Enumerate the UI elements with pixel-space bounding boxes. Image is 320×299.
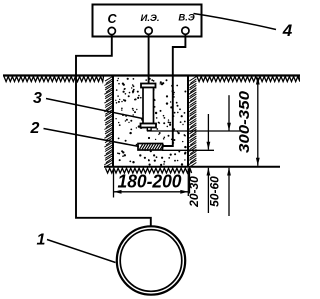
dimension 300-350 line [257, 78, 259, 166]
leader line to label 4 [194, 14, 277, 30]
leader line to label 1 [47, 240, 116, 263]
plate 2 hatch fill [140, 144, 164, 149]
pit left wall hatching [104, 77, 112, 168]
svg-text:4: 4 [282, 21, 293, 40]
dimension 300-350 top arrow [256, 77, 260, 85]
svg-text:3: 3 [33, 90, 42, 107]
svg-text:300-350: 300-350 [236, 90, 253, 153]
electrode 3 top cap [141, 84, 156, 88]
leader line to label 3 [46, 99, 143, 119]
dimension 180-200 line [114, 191, 189, 193]
svg-text:1: 1 [37, 232, 46, 249]
pipe 1 outer circle [117, 226, 185, 294]
dimension 20-30 lower arrow line [207, 168, 209, 213]
electrode 3 body [143, 88, 154, 124]
svg-text:В.Э: В.Э [178, 13, 195, 24]
dimension 50-60 lower arrow line [228, 168, 230, 216]
svg-text:20-30: 20-30 [187, 176, 201, 208]
terminal C [108, 27, 115, 34]
ground surface hatching [4, 77, 300, 82]
electrode 3 bottom flange [141, 124, 157, 128]
svg-text:180-200: 180-200 [118, 172, 182, 192]
dimension 20-30 upper arrow line [207, 114, 209, 150]
level line at electrode bottom [147, 130, 242, 132]
svg-text:С: С [107, 12, 117, 26]
pit left wall [112, 76, 114, 167]
pit right wall [187, 76, 189, 167]
electrode 3 porous tip [147, 128, 151, 131]
svg-text:И.Э.: И.Э. [141, 13, 160, 24]
pit soil stipple fill [115, 78, 186, 166]
level line at plate bottom [162, 149, 214, 151]
wire C terminal to pipe [76, 34, 151, 227]
pit bottom line [104, 166, 280, 168]
dimension 180-200 right extension line [187, 168, 189, 196]
ground surface line [3, 74, 300, 76]
svg-text:2: 2 [30, 120, 40, 137]
dimension 300-350 bottom arrow [256, 158, 260, 166]
instrument box U (measuring device) [93, 5, 202, 37]
wire И.Э. terminal to electrode [148, 34, 150, 84]
leader line to label 2 [44, 129, 140, 147]
dimension 180-200 left extension line [113, 168, 115, 197]
auxiliary electrode plate 2 [138, 144, 163, 151]
dimension 50-60 upper arrow line [228, 95, 230, 130]
pipe 1 inner circle [120, 230, 182, 292]
pit bottom hatching [106, 168, 192, 173]
terminal В.Э. [182, 27, 189, 34]
pit right wall hatching [189, 77, 197, 168]
extension line below pit bottom left of 20-30 [189, 168, 191, 194]
terminal И.Э. [145, 27, 152, 34]
svg-text:50-60: 50-60 [208, 176, 222, 207]
wire В.Э. terminal to plate [162, 34, 185, 146]
